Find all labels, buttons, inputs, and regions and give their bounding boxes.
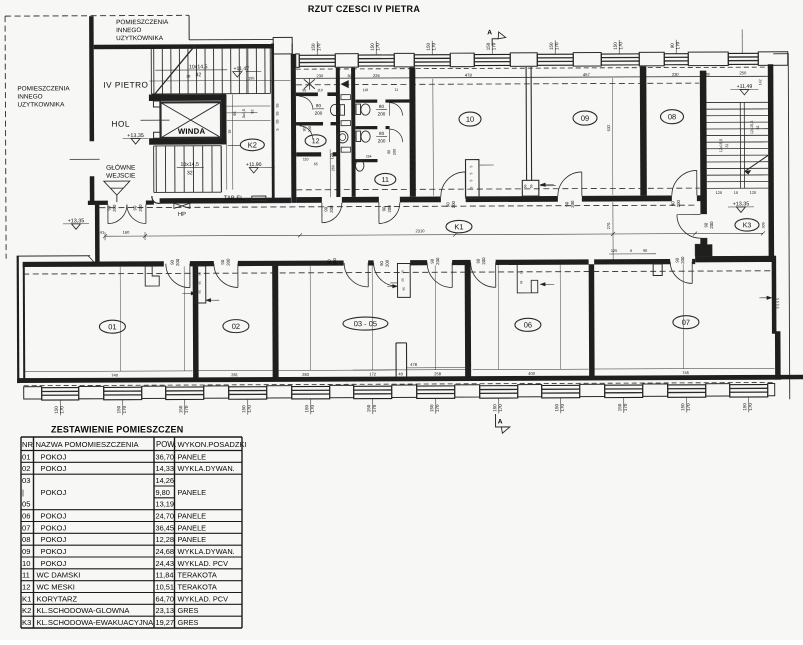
svg-text:KL.SCHODOWA-GLOWNA: KL.SCHODOWA-GLOWNA [37,606,131,615]
svg-text:170: 170 [310,405,315,413]
wall room 06/07 [589,264,595,379]
svg-text:150: 150 [742,403,747,411]
svg-text:65: 65 [198,281,202,285]
wall lower north segment K3 join [695,256,775,263]
svg-text:90: 90 [643,249,647,253]
door WC12 inner [300,126,313,139]
wall corridor west end [95,205,100,264]
wall WC11 / room 10 [409,67,416,196]
svg-text:258: 258 [434,371,441,376]
svg-text:WYKLAD. PCV: WYKLAD. PCV [178,559,229,568]
svg-text:05: 05 [22,500,30,509]
urinal WC11 [355,160,363,171]
svg-text:5: 5 [410,156,414,158]
svg-text:14,26: 14,26 [156,476,175,485]
svg-text:90: 90 [327,259,332,264]
svg-text:226: 226 [373,73,380,78]
svg-text:90: 90 [564,201,569,206]
svg-text:18: 18 [228,130,232,134]
svg-text:28: 28 [186,74,190,78]
svg-text:WC DAMSKI: WC DAMSKI [37,571,81,580]
svg-text:32: 32 [195,72,201,78]
svg-text:03 - 05: 03 - 05 [354,319,377,328]
room label K1 [446,220,472,233]
svg-text:281: 281 [231,372,238,377]
room label K2 [228,144,240,146]
svg-text:120: 120 [750,191,756,195]
svg-text:170: 170 [686,403,691,411]
chimney box wall 01/02 [196,266,206,303]
svg-text:09: 09 [581,114,589,123]
svg-text:150: 150 [486,42,491,50]
svg-text:200: 200 [378,111,386,116]
wall entrance threshold west [88,201,108,205]
svg-text:POW.: POW. [156,440,176,449]
door room 01 [166,264,190,288]
svg-text:80: 80 [316,103,322,108]
svg-text:POMIESZCZENIA: POMIESZCZENIA [116,19,169,26]
svg-text:90: 90 [220,259,225,264]
door room 06 [471,262,496,287]
pillar rooms 01 entry [145,266,159,286]
svg-text:5: 5 [276,128,280,130]
svg-text:230: 230 [316,73,323,78]
svg-text:07: 07 [22,523,30,532]
svg-text:400: 400 [528,371,535,376]
svg-text:90: 90 [703,222,708,227]
svg-text:150: 150 [680,403,685,411]
wall K2 block left (HOL west wall) [89,16,94,141]
svg-text:10: 10 [466,115,474,124]
wall extension to sheet edge bottom right [781,375,803,380]
svg-text:NAZWA POMOMIESZCZENIA: NAZWA POMOMIESZCZENIA [36,440,140,449]
svg-text:170: 170 [316,43,321,51]
wall WC12 south [296,152,321,156]
svg-text:200: 200 [315,111,323,116]
svg-text:200: 200 [378,138,386,143]
svg-text:5: 5 [410,168,414,170]
svg-text:2310: 2310 [416,228,426,233]
svg-text:WC MESKI: WC MESKI [37,583,75,592]
svg-text:80: 80 [379,104,385,109]
svg-text:31: 31 [756,125,760,129]
svg-text:K1: K1 [454,222,463,231]
door WC11 from corridor [379,202,400,223]
elevator shaft bottom slab [149,138,226,145]
svg-text:283: 283 [302,372,309,377]
svg-text:92: 92 [250,109,254,113]
wall exterior east lower upper part [772,256,777,334]
svg-text:90: 90 [379,260,384,265]
svg-text:150: 150 [370,43,375,51]
svg-text:478: 478 [465,73,473,78]
room label 07 [673,316,699,329]
svg-text:K3: K3 [743,222,752,229]
svg-text:IV PIETRO: IV PIETRO [103,81,148,90]
svg-text:13,19: 13,19 [156,500,175,509]
svg-text:11,84: 11,84 [156,571,174,580]
svg-text:11: 11 [395,88,399,92]
svg-text:POKOJ: POKOJ [41,535,67,544]
svg-text:A: A [487,29,492,36]
svg-text:457: 457 [583,72,591,77]
wall K2 block bottom [160,198,291,204]
svg-text:150: 150 [366,404,371,412]
svg-text:170: 170 [560,403,565,411]
svg-text:90: 90 [430,258,435,263]
svg-text:65: 65 [198,272,202,276]
svg-text:POMIESZCZENIA: POMIESZCZENIA [17,85,70,92]
svg-text:3x4,5: 3x4,5 [242,109,246,118]
svg-text:36,45: 36,45 [156,523,175,532]
line lower band west face [17,255,90,257]
dim line room 10 vertical [432,79,435,196]
wall room 01/02 [193,266,199,381]
window axis lines lower rooms [119,267,121,371]
svg-text:12: 12 [312,138,320,145]
svg-text:31: 31 [725,143,729,147]
svg-text:A: A [498,418,503,425]
fan symbol WC12 [304,79,315,89]
svg-text:HP: HP [178,212,186,218]
svg-text:11: 11 [22,571,30,580]
property boundary dashed line [5,14,189,17]
svg-text:150: 150 [116,405,121,413]
svg-text:125: 125 [611,249,617,253]
svg-text:172: 172 [369,372,376,377]
svg-text:170: 170 [372,404,377,412]
svg-text:07: 07 [682,318,690,327]
svg-text:03: 03 [22,476,30,485]
door WC11 stall upper [389,103,402,116]
svg-text:110: 110 [363,88,369,92]
elevator shaft right wall [221,94,226,144]
dashed line upper rooms north 1m [296,83,699,85]
svg-text:230: 230 [672,72,679,77]
svg-text:150: 150 [554,403,559,411]
svg-text:28: 28 [705,72,710,77]
svg-text:23,13: 23,13 [156,606,175,615]
svg-text:110: 110 [317,88,323,92]
svg-text:UZYTKOWNIKA: UZYTKOWNIKA [17,101,65,108]
svg-text:POKOJ: POKOJ [41,488,67,497]
wall K2 block top [94,44,274,49]
duct wall west [336,68,341,197]
svg-text:55: 55 [276,119,280,123]
svg-text:170: 170 [435,404,440,412]
top window dimension marks 150/170 [316,41,318,55]
svg-text:NR: NR [22,440,33,449]
svg-text:532: 532 [606,124,611,131]
svg-text:9,80: 9,80 [156,488,170,497]
corridor dimension line [105,233,763,236]
stairs K3 walk line diagonal [745,155,769,171]
svg-text:150: 150 [241,405,246,413]
svg-text:65: 65 [314,162,318,166]
svg-text:200: 200 [680,256,685,264]
wall WC12 west [291,54,297,203]
svg-text:170: 170 [431,43,436,51]
elevator shaft top slab [149,94,226,101]
door room 03 [344,263,368,287]
room label 01 [99,320,125,333]
wall HOL west below door [90,176,95,204]
svg-text:250: 250 [739,70,747,75]
svg-text:120: 120 [330,153,334,159]
stairs K2 lower flight [154,146,222,193]
svg-text:K3: K3 [22,618,31,627]
dims above room 07 door [609,253,656,255]
room label 08 [660,110,683,124]
svg-text:170: 170 [59,406,64,414]
svg-text:90: 90 [387,150,391,154]
svg-text:UZYTKOWNIKA: UZYTKOWNIKA [116,35,164,42]
boundary corner line [188,15,190,39]
svg-text:309: 309 [761,222,765,228]
svg-text:PANELE: PANELE [178,488,207,497]
door WC12 from corridor [322,203,342,223]
svg-text:5 5 5 5: 5 5 5 5 [776,298,780,309]
svg-text:5: 5 [410,162,414,164]
wall K2 stairwell east [271,43,274,198]
svg-text:55: 55 [275,111,279,115]
wall room 05/06 [465,265,472,380]
stairs K2 upper flight walk-line diagonal [154,45,195,94]
svg-text:5: 5 [469,173,473,175]
svg-text:32: 32 [187,170,193,176]
svg-text:55: 55 [529,184,533,188]
pillar room 10 [465,160,479,199]
room label 02 [223,320,249,333]
room label 06 [515,318,541,331]
svg-text:90: 90 [303,127,307,131]
svg-text:150: 150 [613,42,618,50]
svg-text:PANELE: PANELE [178,512,207,521]
wall exterior east lower lower part [775,331,781,379]
svg-text:PANELE: PANELE [178,452,207,461]
svg-text:90: 90 [323,206,328,211]
svg-text:49: 49 [398,371,403,376]
svg-text:WEJSCIE: WEJSCIE [106,173,136,180]
svg-text:90: 90 [381,206,386,211]
door sill line HOL west [70,158,100,160]
svg-text:WYKON.POSADZKI: WYKON.POSADZKI [178,440,247,449]
svg-text:08: 08 [668,112,676,121]
svg-text:02: 02 [22,464,30,473]
svg-text:5: 5 [469,180,473,182]
svg-text:POKOJ: POKOJ [41,512,67,521]
table grid [21,437,242,628]
svg-text:170: 170 [748,403,753,411]
svg-text:200: 200 [451,200,456,208]
svg-text:200: 200 [709,221,714,229]
dim line above K3 window [741,29,743,53]
svg-text:K2: K2 [248,141,257,150]
hydrant HP symbol [174,203,190,208]
svg-text:24,43: 24,43 [156,559,175,568]
svg-text:150: 150 [429,404,434,412]
door K3 from corridor [677,215,701,239]
svg-text:170: 170 [498,404,503,412]
svg-text:POKOJ: POKOJ [41,547,67,556]
svg-text:30: 30 [347,74,351,78]
svg-text:170: 170 [623,403,628,411]
door WC12 stall [299,96,313,110]
svg-text:270: 270 [606,222,611,229]
svg-text:150: 150 [492,404,497,412]
room label K3 [735,219,759,232]
svg-text:WYKLA.DYWAN.: WYKLA.DYWAN. [178,464,235,473]
svg-text:90: 90 [445,202,450,207]
svg-text:150: 150 [617,403,622,411]
svg-text:170: 170 [122,405,127,413]
svg-text:10x14,5: 10x14,5 [180,162,199,168]
svg-text:TAB.EL.: TAB.EL. [224,196,246,202]
dim line duct 120/260 [329,149,331,197]
svg-text:160: 160 [123,230,130,235]
dim lines right of elevator [225,95,227,190]
svg-text:200: 200 [481,257,486,265]
svg-text:96: 96 [233,112,237,116]
svg-text:19,27: 19,27 [156,618,175,627]
wall K3 east = building east [768,64,774,258]
svg-text:200: 200 [308,126,312,132]
svg-text:WYKLA.DYWAN.: WYKLA.DYWAN. [178,547,235,556]
toilet WC11 lower [356,131,361,142]
entrance door leaf left [108,205,127,224]
svg-text:06: 06 [524,321,532,330]
svg-text:12,28: 12,28 [156,535,175,544]
svg-text:200: 200 [393,149,397,155]
svg-text:150: 150 [178,405,183,413]
svg-text:WYKLAD. PCV: WYKLAD. PCV [178,594,229,603]
door room 09 [558,172,582,196]
svg-text:150: 150 [311,43,316,51]
svg-text:170: 170 [184,405,189,413]
svg-text:5: 5 [469,166,473,168]
svg-text:KL.SCHODOWA-EWAKUACYJNA: KL.SCHODOWA-EWAKUACYJNA [37,618,155,627]
svg-text:90: 90 [670,201,675,206]
svg-text:200: 200 [226,258,231,266]
stairs K3 steps [706,102,768,188]
svg-text:PANELE: PANELE [178,523,207,532]
wall room 02/03 [272,266,279,381]
svg-text:65: 65 [519,280,523,284]
wall room 09 / room 08 [640,66,647,195]
svg-text:POKOJ: POKOJ [41,523,67,532]
svg-text:ZESTAWIENIE POMIESZCZEN: ZESTAWIENIE POMIESZCZEN [51,425,183,435]
svg-text:170: 170 [675,41,680,49]
svg-text:120: 120 [716,191,722,195]
chimney room 06 [517,265,538,293]
svg-text:55: 55 [523,184,527,188]
svg-text:GŁÓWNE: GŁÓWNE [106,163,136,172]
svg-text:200: 200 [385,259,390,267]
svg-text:80: 80 [379,131,385,136]
svg-text:INNEGO: INNEGO [116,27,141,34]
svg-text:200: 200 [329,205,334,213]
wall WC11 stall north [355,100,377,103]
svg-text:HOL: HOL [112,120,130,129]
svg-text:14,33: 14,33 [156,464,175,473]
wall WC12 stall [296,122,323,126]
svg-text:GRES: GRES [178,606,199,615]
svg-text:15: 15 [519,270,523,274]
svg-text:200: 200 [175,258,180,266]
entrance door leaf right [127,205,146,224]
wall exterior west outer line [17,256,20,383]
svg-text:INNEGO: INNEGO [17,93,42,100]
svg-text:08: 08 [22,535,30,544]
wall WC11 south of stalls [355,159,377,162]
vent triangle WC12 [341,81,348,88]
svg-text:90: 90 [170,259,175,264]
room label 11 [375,173,396,185]
pier top right of K2 block [273,37,292,54]
K3 south step walls [695,238,712,256]
duct cross boxes [341,95,351,100]
inner face line top wall [296,76,773,78]
svg-text:K1: K1 [22,594,31,603]
dim line room 09 vertical 532 [611,78,614,195]
svg-text:36,70: 36,70 [156,452,175,461]
pillar room 09 [540,184,553,186]
svg-text:150: 150 [426,43,431,51]
svg-text:150: 150 [304,405,309,413]
svg-text:90: 90 [675,257,680,262]
svg-text:8: 8 [630,249,632,253]
svg-text:10: 10 [734,191,738,195]
svg-text:WINDA: WINDA [178,127,206,136]
svg-text:200: 200 [570,200,575,208]
top facade wall band with windows [292,41,790,401]
svg-text:90: 90 [476,258,481,263]
line K2 block upper boundary [189,38,273,40]
svg-text:POKOJ: POKOJ [41,464,67,473]
svg-text:200: 200 [676,199,681,207]
svg-text:170: 170 [375,43,380,51]
main entrance funnel symbol [104,181,130,195]
svg-text:11: 11 [382,177,389,184]
svg-text:RZUT CZESCI IV PIETRA: RZUT CZESCI IV PIETRA [308,4,421,14]
wall entrance threshold east [146,200,154,204]
duct wall east / WC11 west [351,68,356,197]
wall room 08 / K3 [700,71,707,215]
svg-text:170: 170 [618,42,623,50]
svg-text:GRES: GRES [178,618,199,627]
svg-text:24,68: 24,68 [156,547,175,556]
pillar room 06 east [653,264,662,276]
dim lines lower rooms [24,370,193,373]
wall exterior west inner line [23,264,26,380]
svg-text:01: 01 [22,452,30,461]
wall room 10 / room 09 [525,67,527,180]
svg-text:55: 55 [275,103,279,107]
wall WC12 north interior [296,92,318,96]
svg-text:TERAKOTA: TERAKOTA [178,571,217,580]
toilet WC12 [340,105,345,116]
svg-text:15: 15 [401,270,405,274]
door room 02 [214,263,238,287]
room label 09 [573,111,597,125]
svg-text:|: | [22,488,24,497]
room label 12 [305,135,326,147]
wall lower rooms south [17,375,781,383]
svg-text:200: 200 [435,257,440,265]
door room 04 [374,263,398,287]
bottom facade windows band [24,382,775,400]
closet dim 478 [407,367,470,369]
